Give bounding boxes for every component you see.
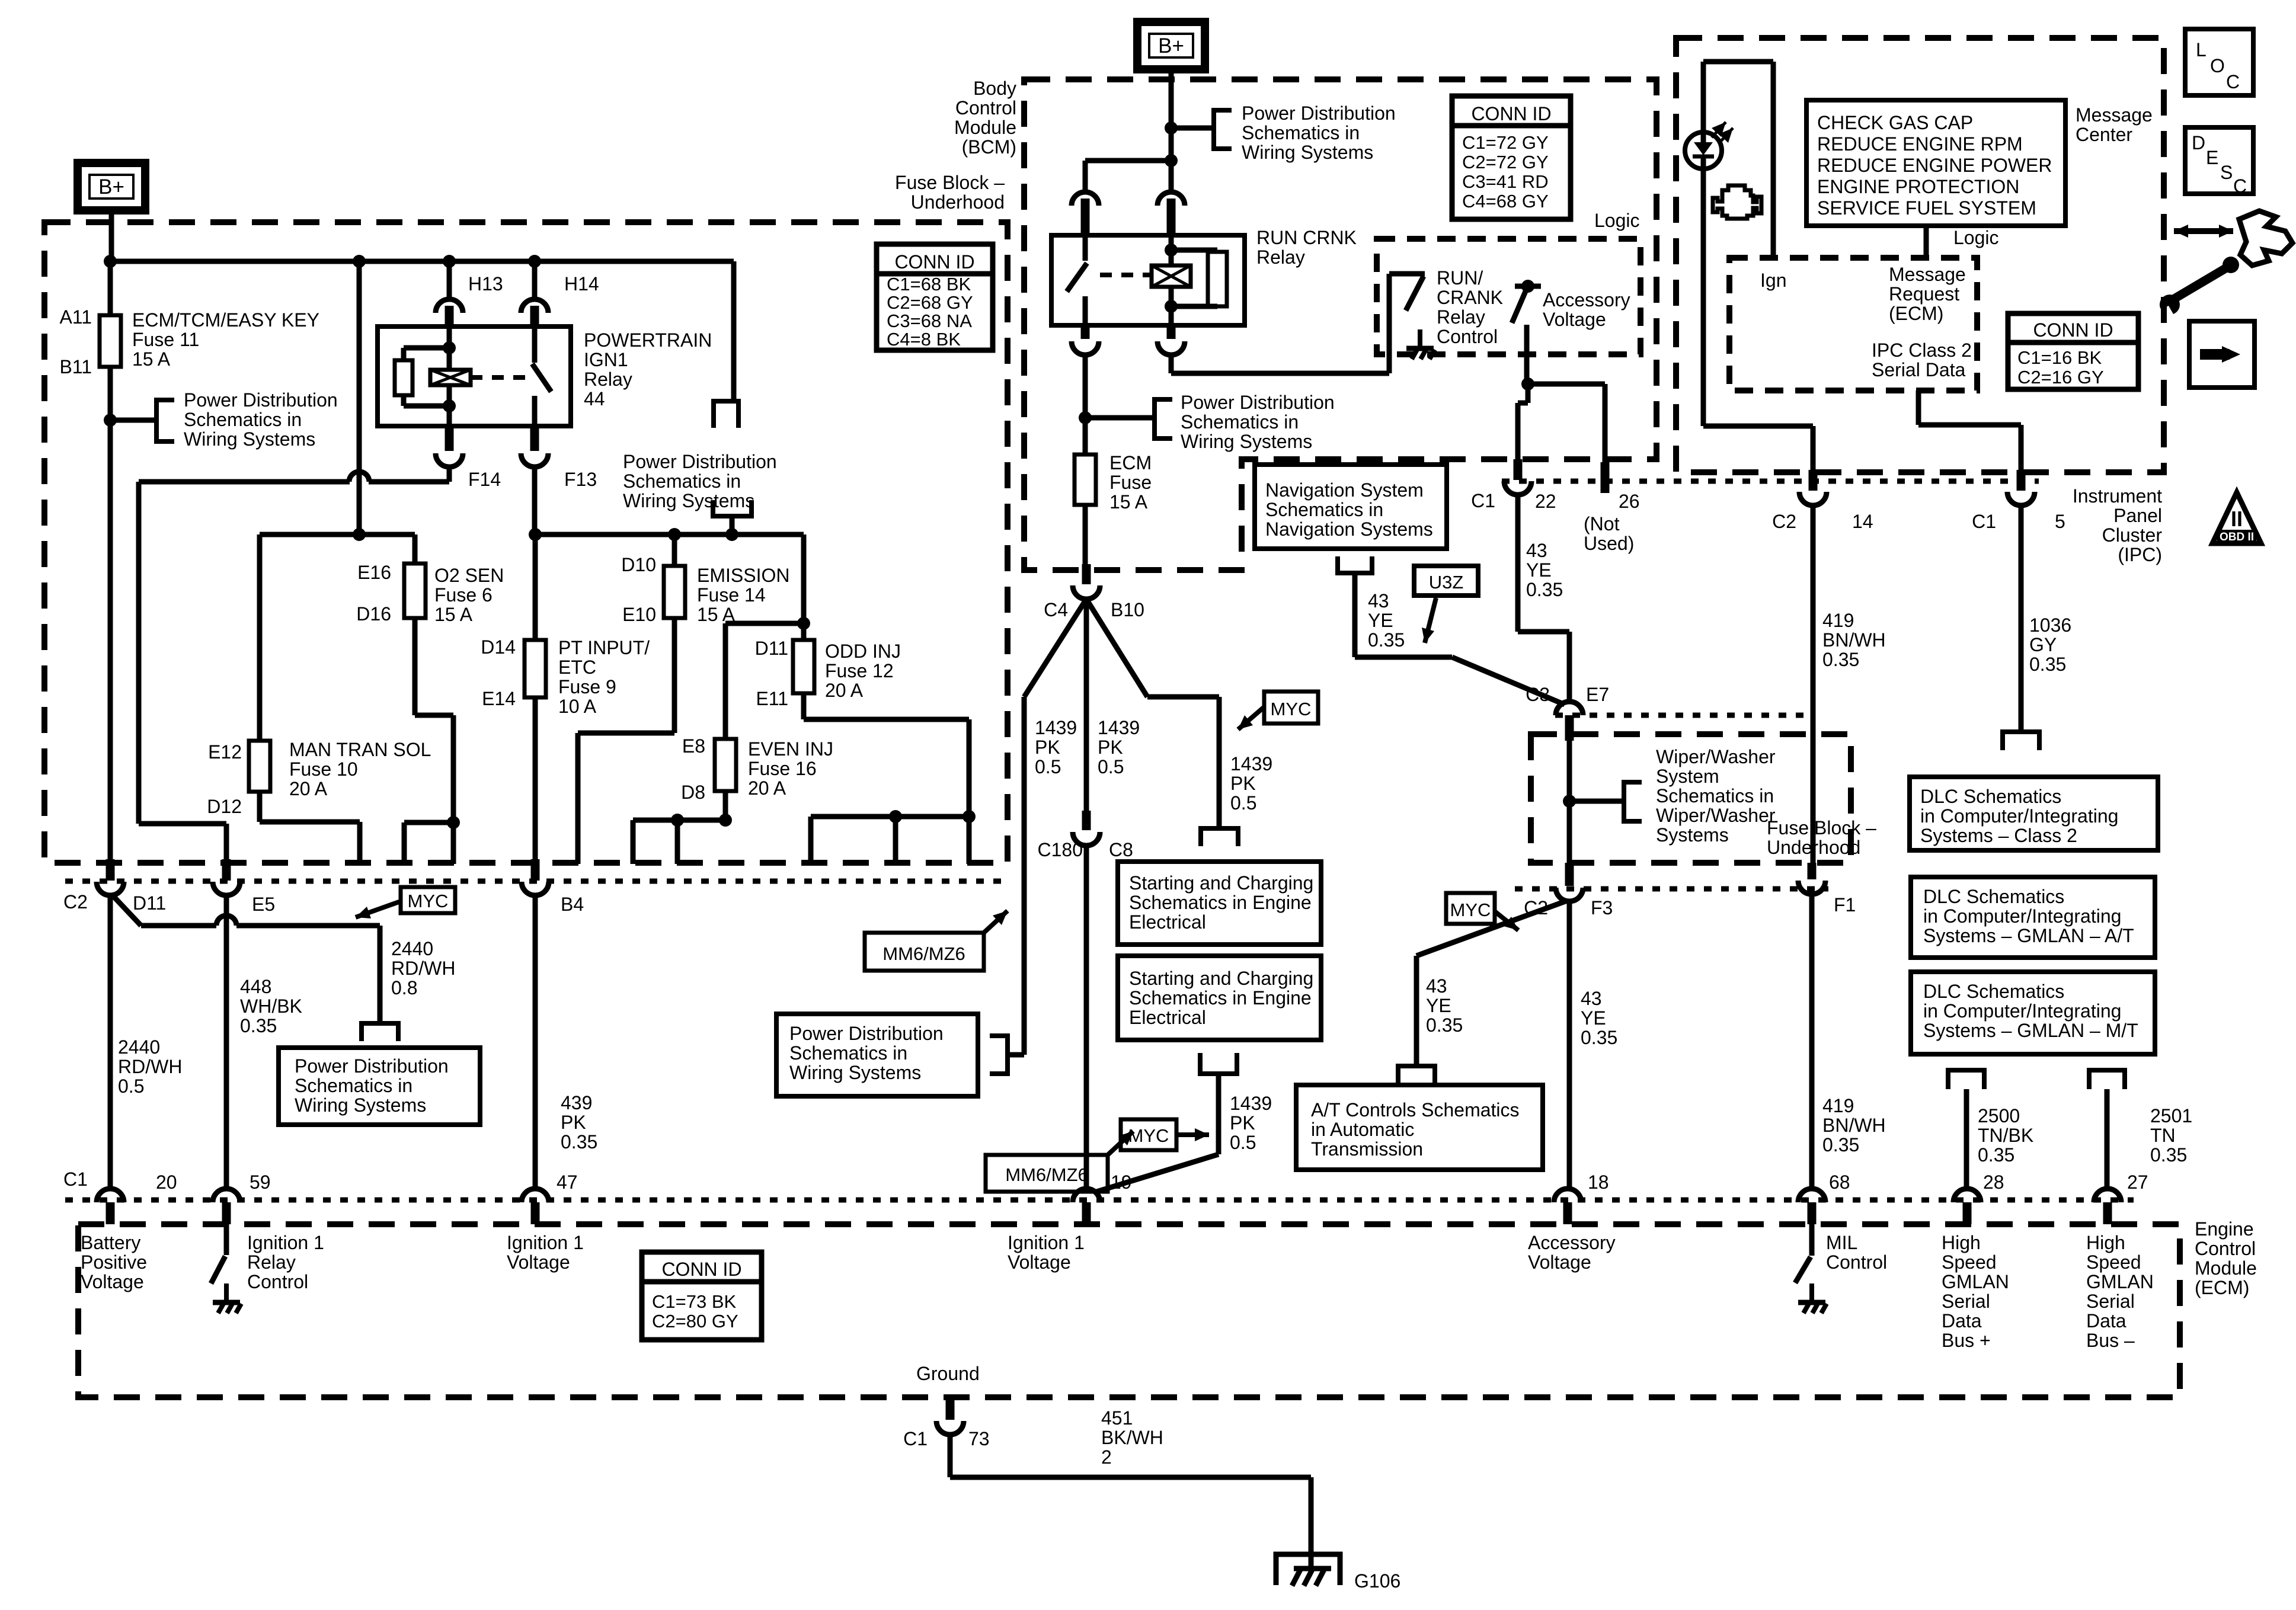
svg-text:C3=41 RD: C3=41 RD	[1462, 171, 1549, 192]
svg-text:0.8: 0.8	[391, 977, 417, 998]
svg-text:ECM/TCM/EASY KEY: ECM/TCM/EASY KEY	[132, 309, 319, 331]
svg-text:Positive: Positive	[81, 1251, 147, 1273]
svg-text:CONN ID: CONN ID	[2033, 319, 2113, 341]
svg-text:Relay: Relay	[1437, 306, 1485, 328]
svg-text:II: II	[2231, 507, 2243, 531]
svg-text:RUN CRNK: RUN CRNK	[1256, 227, 1357, 248]
svg-text:Ground: Ground	[916, 1363, 980, 1384]
svg-text:C4=8 BK: C4=8 BK	[887, 329, 961, 350]
svg-text:U3Z: U3Z	[1429, 572, 1464, 593]
svg-text:Power Distribution: Power Distribution	[1242, 103, 1396, 124]
svg-text:Voltage: Voltage	[81, 1271, 144, 1292]
svg-text:CRANK: CRANK	[1437, 287, 1503, 308]
svg-text:L: L	[2196, 39, 2207, 60]
svg-text:CONN ID: CONN ID	[894, 251, 974, 273]
svg-text:F1: F1	[1834, 894, 1856, 916]
svg-text:Voltage: Voltage	[1543, 309, 1606, 330]
svg-text:C4=68 GY: C4=68 GY	[1462, 191, 1549, 212]
svg-text:1439: 1439	[1230, 1093, 1272, 1114]
svg-text:YE: YE	[1426, 995, 1451, 1016]
svg-text:Cluster: Cluster	[2102, 524, 2163, 546]
svg-text:C3=68 NA: C3=68 NA	[887, 311, 972, 331]
svg-text:0.35: 0.35	[2150, 1144, 2187, 1166]
svg-text:C3: C3	[1526, 684, 1550, 705]
svg-text:RD/WH: RD/WH	[118, 1056, 182, 1077]
svg-text:68: 68	[1829, 1172, 1850, 1193]
svg-text:Bus +: Bus +	[1942, 1330, 1991, 1351]
svg-text:MYC: MYC	[1271, 699, 1312, 719]
svg-text:RUN/: RUN/	[1437, 267, 1483, 289]
svg-text:MYC: MYC	[1450, 900, 1491, 920]
svg-text:D11: D11	[755, 638, 788, 659]
svg-text:0.35: 0.35	[561, 1131, 597, 1153]
svg-text:451: 451	[1101, 1407, 1133, 1429]
svg-text:47: 47	[557, 1172, 578, 1193]
svg-text:Wiring Systems: Wiring Systems	[184, 428, 315, 450]
svg-text:Accessory: Accessory	[1543, 289, 1630, 311]
svg-text:BK/WH: BK/WH	[1101, 1427, 1163, 1448]
svg-text:C1=72 GY: C1=72 GY	[1462, 132, 1549, 153]
svg-text:A/T Controls Schematics: A/T Controls Schematics	[1311, 1099, 1520, 1121]
svg-text:CONN ID: CONN ID	[1471, 103, 1551, 124]
svg-text:Speed: Speed	[2086, 1251, 2141, 1273]
svg-text:0.35: 0.35	[1581, 1027, 1617, 1048]
svg-text:Speed: Speed	[1942, 1251, 1997, 1273]
svg-text:ECM: ECM	[1109, 452, 1152, 473]
svg-text:43: 43	[1526, 540, 1547, 561]
svg-text:Fuse 12: Fuse 12	[825, 660, 894, 681]
svg-text:Control: Control	[1826, 1251, 1887, 1273]
svg-text:GY: GY	[2029, 634, 2057, 655]
svg-text:(Not: (Not	[1584, 513, 1620, 534]
svg-text:MYC: MYC	[408, 891, 449, 911]
svg-text:Control: Control	[1437, 326, 1498, 347]
svg-text:E16: E16	[357, 562, 391, 583]
svg-text:Fuse 10: Fuse 10	[289, 758, 358, 780]
svg-text:E7: E7	[1586, 684, 1609, 705]
svg-text:Fuse Block –: Fuse Block –	[895, 172, 1005, 193]
svg-text:Voltage: Voltage	[1008, 1251, 1071, 1273]
svg-text:REDUCE ENGINE POWER: REDUCE ENGINE POWER	[1817, 155, 2052, 176]
svg-text:Starting and Charging: Starting and Charging	[1129, 968, 1313, 989]
svg-text:Panel: Panel	[2113, 505, 2162, 526]
svg-text:F13: F13	[564, 469, 597, 490]
svg-text:1439: 1439	[1230, 753, 1272, 774]
svg-text:419: 419	[1822, 1095, 1854, 1116]
svg-text:System: System	[1656, 766, 1719, 787]
svg-text:Wiring Systems: Wiring Systems	[295, 1094, 426, 1116]
svg-text:Battery: Battery	[81, 1232, 140, 1253]
svg-text:GMLAN: GMLAN	[2086, 1271, 2154, 1292]
svg-text:IGN1: IGN1	[584, 349, 628, 370]
svg-text:Instrument: Instrument	[2073, 485, 2162, 507]
svg-text:Schematics in: Schematics in	[184, 409, 302, 430]
svg-text:C1: C1	[903, 1428, 928, 1449]
svg-text:Serial: Serial	[2086, 1291, 2135, 1312]
svg-text:E8: E8	[682, 735, 705, 757]
svg-text:Power Distribution: Power Distribution	[789, 1023, 944, 1044]
svg-text:ODD INJ: ODD INJ	[825, 641, 901, 662]
svg-text:0.35: 0.35	[1368, 629, 1405, 651]
svg-text:PK: PK	[1035, 737, 1060, 758]
svg-text:MAN TRAN SOL: MAN TRAN SOL	[289, 739, 431, 760]
svg-text:EMISSION: EMISSION	[697, 565, 789, 586]
svg-text:Fuse: Fuse	[1109, 472, 1152, 493]
svg-text:0.5: 0.5	[1230, 792, 1256, 814]
svg-text:Module: Module	[2195, 1257, 2257, 1279]
svg-text:2: 2	[1101, 1446, 1112, 1468]
svg-text:PK: PK	[1230, 1112, 1255, 1134]
svg-text:Transmission: Transmission	[1311, 1138, 1423, 1160]
svg-text:B4: B4	[561, 894, 584, 915]
svg-text:Bus –: Bus –	[2086, 1330, 2135, 1351]
svg-text:15 A: 15 A	[1109, 491, 1148, 513]
svg-text:PK: PK	[561, 1112, 586, 1133]
svg-text:43: 43	[1426, 975, 1447, 997]
svg-text:D: D	[2192, 132, 2205, 153]
svg-text:C2=16 GY: C2=16 GY	[2017, 367, 2104, 388]
svg-text:EVEN INJ: EVEN INJ	[748, 738, 833, 760]
svg-text:(ECM): (ECM)	[2195, 1277, 2249, 1298]
svg-text:Power Distribution: Power Distribution	[623, 451, 777, 472]
svg-text:Wiper/Washer: Wiper/Washer	[1656, 805, 1776, 826]
svg-text:44: 44	[584, 388, 605, 409]
svg-text:Relay: Relay	[1256, 247, 1305, 268]
svg-text:Body: Body	[973, 78, 1016, 99]
svg-text:20 A: 20 A	[289, 778, 328, 799]
svg-text:C: C	[2226, 71, 2240, 92]
svg-text:22: 22	[1535, 491, 1556, 512]
svg-text:YE: YE	[1581, 1007, 1606, 1029]
svg-text:D16: D16	[356, 603, 391, 625]
svg-text:POWERTRAIN: POWERTRAIN	[584, 329, 712, 351]
svg-text:419: 419	[1822, 610, 1854, 631]
svg-text:1439: 1439	[1035, 717, 1077, 738]
svg-text:C2=72 GY: C2=72 GY	[1462, 152, 1549, 172]
svg-text:Electrical: Electrical	[1129, 1007, 1206, 1028]
svg-text:OBD II: OBD II	[2220, 531, 2254, 543]
svg-text:D8: D8	[681, 782, 705, 803]
svg-text:Power Distribution: Power Distribution	[184, 389, 338, 411]
svg-text:PK: PK	[1098, 737, 1123, 758]
svg-text:RD/WH: RD/WH	[391, 958, 455, 979]
svg-text:Wiper/Washer: Wiper/Washer	[1656, 746, 1776, 767]
svg-text:B+: B+	[98, 175, 124, 199]
svg-text:Fuse 14: Fuse 14	[697, 584, 766, 606]
svg-text:Message: Message	[2076, 104, 2153, 126]
svg-text:Navigation Systems: Navigation Systems	[1265, 518, 1433, 540]
svg-text:28: 28	[1983, 1172, 2004, 1193]
svg-text:2440: 2440	[391, 938, 433, 959]
svg-text:Serial: Serial	[1942, 1291, 1990, 1312]
svg-text:C1: C1	[1972, 511, 1996, 532]
svg-text:E14: E14	[482, 688, 516, 709]
svg-text:GMLAN: GMLAN	[1942, 1271, 2009, 1292]
svg-text:E12: E12	[208, 741, 242, 763]
svg-text:26: 26	[1619, 491, 1640, 512]
svg-text:Ign: Ign	[1760, 270, 1786, 291]
svg-text:Electrical: Electrical	[1129, 911, 1206, 933]
svg-text:CHECK GAS CAP: CHECK GAS CAP	[1817, 112, 1973, 133]
svg-text:Schematics in: Schematics in	[1181, 411, 1299, 433]
svg-text:A11: A11	[59, 306, 92, 328]
svg-text:20 A: 20 A	[825, 680, 864, 701]
svg-text:ETC: ETC	[558, 657, 596, 678]
svg-text:2501: 2501	[2150, 1105, 2192, 1126]
svg-text:Message: Message	[1889, 264, 1966, 285]
svg-text:F14: F14	[468, 469, 501, 490]
svg-text:C180: C180	[1038, 839, 1083, 860]
svg-text:Control: Control	[2195, 1238, 2256, 1259]
svg-text:(IPC): (IPC)	[2118, 544, 2162, 565]
svg-text:Systems – GMLAN – A/T: Systems – GMLAN – A/T	[1923, 925, 2134, 946]
svg-text:Fuse 6: Fuse 6	[434, 584, 493, 606]
svg-text:Fuse 9: Fuse 9	[558, 676, 616, 697]
svg-text:5: 5	[2055, 511, 2065, 532]
svg-text:Used): Used)	[1584, 533, 1634, 554]
svg-text:High: High	[1942, 1232, 1981, 1253]
svg-text:DLC Schematics: DLC Schematics	[1920, 786, 2061, 807]
svg-text:Schematics in: Schematics in	[623, 470, 741, 492]
svg-text:0.35: 0.35	[1822, 649, 1859, 670]
svg-text:C1=68 BK: C1=68 BK	[887, 274, 971, 295]
svg-text:C4: C4	[1044, 599, 1068, 620]
svg-text:C1: C1	[63, 1169, 88, 1190]
svg-text:Ignition 1: Ignition 1	[247, 1232, 324, 1253]
svg-text:0.5: 0.5	[1098, 756, 1124, 777]
svg-text:0.35: 0.35	[2029, 654, 2066, 675]
svg-text:Data: Data	[1942, 1310, 1982, 1331]
svg-text:Schematics in: Schematics in	[789, 1042, 907, 1064]
svg-text:D14: D14	[481, 636, 516, 658]
svg-text:O2 SEN: O2 SEN	[434, 565, 504, 586]
svg-text:Systems – GMLAN – M/T: Systems – GMLAN – M/T	[1923, 1020, 2138, 1041]
svg-text:B11: B11	[59, 356, 92, 377]
svg-text:C2: C2	[63, 891, 88, 913]
svg-text:(BCM): (BCM)	[962, 136, 1016, 158]
svg-text:S: S	[2220, 162, 2233, 183]
svg-text:REDUCE ENGINE RPM: REDUCE ENGINE RPM	[1817, 133, 2023, 155]
svg-text:Schematics in: Schematics in	[295, 1075, 412, 1096]
svg-text:C1=73 BK: C1=73 BK	[652, 1291, 737, 1312]
svg-text:C8: C8	[1109, 839, 1133, 860]
svg-text:0.35: 0.35	[240, 1015, 277, 1036]
svg-text:Ignition 1: Ignition 1	[507, 1232, 584, 1253]
svg-text:Fuse 11: Fuse 11	[132, 329, 199, 350]
svg-text:Navigation System: Navigation System	[1265, 479, 1424, 501]
svg-text:D12: D12	[207, 796, 242, 817]
svg-text:Logic: Logic	[1594, 210, 1640, 231]
svg-text:PT INPUT/: PT INPUT/	[558, 637, 650, 658]
svg-text:43: 43	[1368, 590, 1389, 612]
svg-text:2500: 2500	[1978, 1105, 2020, 1126]
svg-text:YE: YE	[1526, 559, 1552, 581]
svg-text:E11: E11	[756, 688, 788, 709]
svg-text:15 A: 15 A	[434, 604, 473, 625]
svg-text:TN: TN	[2150, 1125, 2176, 1146]
svg-text:Engine: Engine	[2195, 1218, 2254, 1240]
svg-text:Wiring Systems: Wiring Systems	[623, 490, 754, 511]
svg-text:1439: 1439	[1098, 717, 1140, 738]
svg-text:27: 27	[2127, 1172, 2148, 1193]
svg-text:DLC Schematics: DLC Schematics	[1923, 886, 2064, 907]
svg-text:Module: Module	[954, 117, 1016, 138]
svg-text:in Computer/Integrating: in Computer/Integrating	[1923, 905, 2121, 927]
svg-text:0.5: 0.5	[118, 1076, 144, 1097]
svg-text:ENGINE PROTECTION: ENGINE PROTECTION	[1817, 176, 2019, 197]
svg-text:0.5: 0.5	[1230, 1132, 1256, 1153]
svg-text:439: 439	[561, 1092, 592, 1113]
svg-text:Wiring Systems: Wiring Systems	[1242, 142, 1373, 163]
svg-text:C2=68 GY: C2=68 GY	[887, 292, 973, 313]
svg-text:B+: B+	[1158, 34, 1184, 57]
svg-text:BN/WH: BN/WH	[1822, 629, 1886, 651]
svg-text:IPC Class 2: IPC Class 2	[1872, 340, 1972, 361]
svg-text:0.35: 0.35	[1978, 1144, 2014, 1166]
svg-text:E5: E5	[252, 894, 275, 915]
svg-text:Control: Control	[955, 97, 1016, 119]
svg-text:Fuse Block –: Fuse Block –	[1767, 817, 1876, 838]
svg-text:1036: 1036	[2029, 614, 2071, 636]
svg-text:High: High	[2086, 1232, 2125, 1253]
svg-text:14: 14	[1852, 511, 1873, 532]
svg-text:Systems: Systems	[1656, 824, 1729, 846]
svg-text:MM6/MZ6: MM6/MZ6	[882, 943, 965, 964]
svg-text:TN/BK: TN/BK	[1978, 1125, 2033, 1146]
svg-text:C1: C1	[1471, 490, 1495, 511]
svg-text:G106: G106	[1354, 1570, 1400, 1592]
svg-text:0.35: 0.35	[1526, 579, 1563, 600]
svg-text:Relay: Relay	[247, 1251, 296, 1273]
svg-text:Schematics in: Schematics in	[1656, 785, 1774, 806]
svg-text:PK: PK	[1230, 773, 1256, 794]
svg-text:Ignition 1: Ignition 1	[1008, 1232, 1085, 1253]
svg-text:10 A: 10 A	[558, 696, 597, 717]
svg-text:Center: Center	[2076, 124, 2132, 145]
svg-text:CONN ID: CONN ID	[661, 1259, 741, 1280]
svg-text:E10: E10	[622, 604, 656, 625]
svg-text:73: 73	[968, 1428, 990, 1449]
svg-text:in Computer/Integrating: in Computer/Integrating	[1923, 1000, 2121, 1022]
svg-text:Request: Request	[1889, 283, 1959, 305]
svg-text:Logic: Logic	[1953, 227, 1999, 248]
svg-text:Systems – Class 2: Systems – Class 2	[1920, 825, 2077, 846]
svg-text:H13: H13	[468, 273, 503, 295]
svg-text:E: E	[2206, 147, 2218, 168]
svg-text:MYC: MYC	[1128, 1125, 1169, 1146]
svg-text:in Automatic: in Automatic	[1311, 1119, 1414, 1140]
svg-text:Schematics in Engine: Schematics in Engine	[1129, 987, 1312, 1009]
svg-text:18: 18	[1588, 1172, 1609, 1193]
svg-text:DLC Schematics: DLC Schematics	[1923, 981, 2064, 1002]
svg-text:C2=80 GY: C2=80 GY	[652, 1311, 738, 1331]
svg-text:MM6/MZ6: MM6/MZ6	[1005, 1164, 1088, 1185]
svg-text:Voltage: Voltage	[1528, 1251, 1591, 1273]
svg-text:B10: B10	[1111, 599, 1144, 620]
svg-text:C1=16 BK: C1=16 BK	[2017, 347, 2102, 368]
svg-text:0.5: 0.5	[1035, 756, 1061, 777]
svg-text:Wiring Systems: Wiring Systems	[1181, 431, 1312, 452]
svg-text:59: 59	[250, 1172, 271, 1193]
svg-text:Fuse 16: Fuse 16	[748, 758, 817, 779]
svg-text:Accessory: Accessory	[1528, 1232, 1616, 1253]
svg-text:(ECM): (ECM)	[1889, 303, 1943, 324]
svg-text:YE: YE	[1368, 610, 1393, 631]
svg-text:Underhood: Underhood	[911, 191, 1005, 213]
svg-text:O: O	[2210, 55, 2225, 76]
svg-text:SERVICE FUEL SYSTEM: SERVICE FUEL SYSTEM	[1817, 197, 2036, 219]
svg-text:Schematics in: Schematics in	[1242, 122, 1360, 143]
svg-text:43: 43	[1581, 988, 1602, 1009]
svg-text:20 A: 20 A	[748, 777, 786, 799]
svg-text:C: C	[2233, 175, 2247, 197]
svg-text:20: 20	[156, 1172, 177, 1193]
svg-text:D11: D11	[133, 892, 166, 914]
svg-text:448: 448	[240, 976, 271, 997]
svg-text:WH/BK: WH/BK	[240, 996, 302, 1017]
svg-text:15 A: 15 A	[132, 348, 171, 370]
svg-text:BN/WH: BN/WH	[1822, 1115, 1886, 1136]
svg-text:Wiring Systems: Wiring Systems	[789, 1062, 921, 1083]
svg-text:Power Distribution: Power Distribution	[1181, 392, 1335, 413]
svg-text:Schematics in: Schematics in	[1265, 499, 1383, 520]
svg-text:Starting and Charging: Starting and Charging	[1129, 872, 1313, 894]
svg-text:Serial Data: Serial Data	[1872, 359, 1966, 380]
svg-text:Control: Control	[247, 1271, 308, 1292]
svg-text:C2: C2	[1772, 511, 1796, 532]
svg-text:F3: F3	[1591, 897, 1613, 918]
svg-text:0.35: 0.35	[1426, 1014, 1463, 1036]
svg-text:Voltage: Voltage	[507, 1251, 570, 1273]
svg-text:H14: H14	[564, 273, 599, 295]
svg-text:0.35: 0.35	[1822, 1134, 1859, 1156]
svg-text:Data: Data	[2086, 1310, 2126, 1331]
svg-text:Power Distribution: Power Distribution	[295, 1055, 449, 1077]
svg-text:D10: D10	[621, 554, 656, 575]
svg-text:in Computer/Integrating: in Computer/Integrating	[1920, 805, 2118, 827]
svg-text:Relay: Relay	[584, 369, 632, 390]
svg-text:Schematics in Engine: Schematics in Engine	[1129, 892, 1312, 913]
svg-text:2440: 2440	[118, 1036, 160, 1058]
svg-text:MIL: MIL	[1826, 1232, 1857, 1253]
